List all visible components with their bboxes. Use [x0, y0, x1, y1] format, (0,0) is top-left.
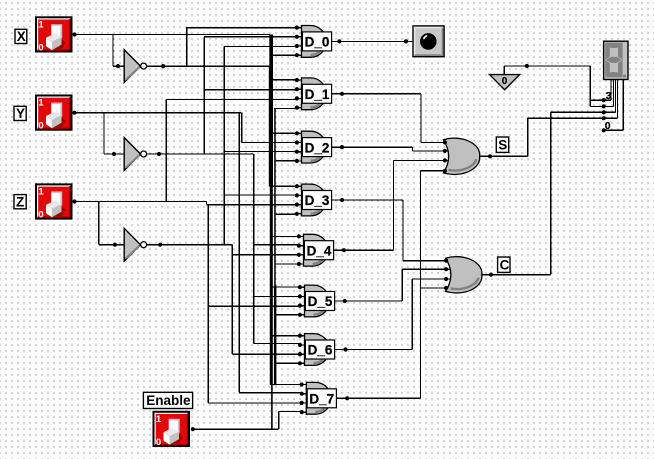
wire D_5 input 3	[208, 305, 300, 307]
wire D_2 input 3	[224, 150, 297, 152]
wire D_3 input 2	[224, 194, 297, 196]
wire D_7 input 2	[239, 392, 302, 394]
node D_4 output	[342, 248, 346, 252]
svg-text:3: 3	[606, 90, 612, 102]
svg-text:Z: Z	[16, 195, 24, 210]
wire D_0 input 1	[187, 27, 297, 29]
svg-text:1: 1	[38, 98, 44, 109]
svg-text:D_0: D_0	[305, 35, 330, 50]
node LED input pin	[404, 39, 408, 43]
wire D_7 input 3	[208, 402, 302, 404]
wire Enable riser to D_7 input 4	[278, 412, 280, 430]
OR gate S (sum)	[443, 138, 480, 174]
wire D_1 input 2	[204, 89, 297, 91]
wire D_2 output	[332, 147, 454, 151]
wire D_1 output	[332, 94, 451, 143]
switch Z	[35, 183, 73, 220]
node X output pin	[72, 32, 76, 36]
switch Y	[35, 95, 73, 132]
wire Enable switch output	[193, 428, 279, 430]
wire D_1 input 4	[274, 107, 297, 109]
svg-text:D_3: D_3	[305, 193, 330, 208]
wire display pin 1 loop	[604, 80, 616, 112]
node D_0 output	[337, 39, 341, 43]
wire NOT-X output	[147, 65, 272, 67]
wire D_7 output	[336, 171, 452, 398]
inverter U1 (NOT X)	[124, 50, 146, 83]
label box X	[15, 29, 27, 44]
svg-text:Enable: Enable	[146, 393, 191, 408]
wire NOT-Y output	[147, 153, 254, 155]
wire D_4 input 1	[271, 235, 299, 237]
wire trunk band mid	[270, 187, 273, 386]
svg-text:Y: Y	[16, 106, 25, 121]
svg-text:S: S	[498, 138, 507, 153]
AND gate D_5	[298, 285, 335, 317]
svg-text:C: C	[500, 258, 510, 273]
inverter U3 (NOT Z)	[124, 228, 146, 261]
node display pin 3	[602, 98, 606, 102]
label pin 0	[605, 120, 611, 132]
node Enable output pin	[191, 427, 195, 431]
svg-text:0: 0	[156, 437, 161, 448]
svg-text:D_5: D_5	[308, 294, 333, 309]
label box Enable	[143, 392, 192, 408]
wire NOT-Z output	[147, 244, 233, 246]
wire D_6 output	[335, 279, 456, 350]
node on NOT-Y output	[157, 152, 161, 156]
wire Z' riser up	[223, 46, 225, 244]
wire Y switch output	[73, 112, 241, 114]
wire Z branch to inverter	[99, 202, 124, 245]
wire S output to display pin	[478, 118, 604, 156]
wire D_4 output	[334, 160, 454, 250]
wire D_6 input 1	[271, 335, 300, 337]
node display pin dp	[602, 128, 606, 132]
label box S	[496, 137, 508, 153]
wire D_3 input 3	[207, 204, 297, 206]
node display pin 2	[602, 104, 606, 108]
AND gate D_7	[300, 382, 337, 414]
svg-text:0: 0	[38, 121, 43, 132]
wire D_6 input 4	[274, 362, 300, 364]
wire trunk band bottom	[271, 385, 273, 430]
wire D_5 input 1	[271, 286, 300, 288]
wire D_0 input 3	[224, 45, 297, 47]
AND gate D_6	[298, 334, 335, 366]
wire trunk band upper	[269, 35, 273, 187]
wire D_0 output to LED	[332, 40, 413, 42]
wire D_3 input 1	[272, 185, 297, 187]
svg-text:1: 1	[38, 19, 44, 30]
OR gate C (carry)	[444, 257, 482, 293]
node D_6 output	[343, 347, 347, 351]
switch X	[35, 16, 73, 53]
wire Y stub lane	[241, 113, 243, 143]
node inverter U2 input junction	[112, 152, 116, 156]
node on NOT-X output	[161, 64, 165, 68]
wire D_5 output	[335, 269, 456, 301]
wire D_6 input 2	[254, 343, 300, 345]
wire D_1 input 3	[166, 98, 297, 100]
wire D_3 input 4	[274, 213, 296, 215]
svg-text:D_6: D_6	[308, 343, 333, 358]
AND gate D_3	[295, 184, 332, 216]
svg-text:D_7: D_7	[309, 392, 334, 407]
wire display pin dp loop	[604, 80, 624, 130]
wire Y' trunk down	[253, 154, 255, 344]
wire Y' riser up	[203, 37, 205, 154]
wire display pin 2 loop	[604, 80, 614, 106]
label pin 3	[606, 90, 612, 102]
label box C	[498, 257, 510, 273]
AND gate D_1	[295, 78, 332, 110]
label box Y	[14, 106, 26, 121]
constant 0 source	[490, 75, 520, 90]
LED indicator	[412, 25, 445, 57]
node inverter U1 input junction	[116, 64, 120, 68]
node S output	[488, 154, 492, 158]
wire Z trunk down	[207, 205, 209, 403]
7-segment display	[603, 41, 629, 81]
svg-text:0: 0	[38, 42, 43, 53]
svg-text:1: 1	[156, 414, 162, 425]
node D_5 output	[343, 299, 347, 303]
wire D_6 input 3	[232, 353, 300, 355]
node on constant-0 wire	[525, 64, 529, 68]
wire D_4 input 4	[274, 263, 299, 265]
wire Z riser to D_1 input 3	[165, 99, 167, 201]
node Y output pin	[72, 111, 76, 115]
node inverter U3 input junction	[113, 243, 117, 247]
node D_2 output	[340, 145, 344, 149]
wire X' riser to D_0 input 1	[186, 28, 188, 67]
wire Enable lane	[274, 108, 276, 285]
svg-text:0: 0	[38, 209, 43, 220]
inverter U2 (NOT Y)	[124, 138, 146, 171]
node display pin 1	[602, 110, 606, 114]
node D_1 output	[340, 92, 344, 96]
wire display pin 0 loop	[604, 80, 618, 118]
wire display pin 3 loop	[604, 80, 612, 100]
wire D_2 input 4	[274, 160, 297, 162]
wire C output to display pin	[480, 112, 604, 274]
wire D_2 input 2	[242, 141, 297, 143]
svg-text:D_4: D_4	[307, 243, 332, 258]
wire Enable lane lower	[274, 285, 277, 385]
wire Y trunk down	[238, 113, 240, 393]
wire D_7 input 1	[271, 384, 303, 386]
svg-text:1: 1	[38, 186, 44, 197]
wire D_4 input 2	[254, 244, 299, 246]
node on NOT-Z output	[158, 243, 162, 247]
wire D_0 input 4	[272, 54, 297, 56]
AND gate D_4	[297, 234, 334, 266]
wire X switch output	[73, 34, 271, 36]
svg-text:X: X	[17, 29, 26, 44]
wire constant 0 to display pins	[504, 66, 604, 106]
wire D_5 input 4	[274, 314, 300, 316]
node D_3 output	[340, 198, 344, 202]
label box Z	[14, 195, 26, 210]
wire X branch to inverter	[113, 35, 124, 67]
AND gate D_0	[295, 26, 332, 58]
node Z output pin	[72, 199, 76, 203]
wire Z switch output	[73, 202, 207, 205]
switch Enable	[153, 411, 191, 448]
wire Y branch to inverter	[104, 113, 124, 154]
wire D_2 input 1	[272, 132, 297, 134]
node D_7 output	[345, 396, 349, 400]
wire D_1 input 1	[272, 79, 297, 81]
wire D_5 input 2	[254, 295, 300, 297]
wire trunk band X' lane	[268, 66, 271, 186]
wire D_0 input 2	[204, 36, 297, 38]
wire D_3 output	[332, 200, 453, 261]
svg-text:D_1: D_1	[305, 87, 330, 102]
svg-text:0: 0	[605, 120, 611, 132]
node C output	[489, 273, 493, 277]
wire D_7 input 4	[279, 411, 303, 413]
AND gate D_2	[295, 131, 332, 163]
svg-text:0: 0	[502, 76, 508, 87]
node display pin 0	[602, 116, 606, 120]
wire Z' jog down	[231, 245, 233, 355]
wire D_4 input 3	[232, 254, 299, 256]
svg-text:D_2: D_2	[305, 140, 330, 155]
